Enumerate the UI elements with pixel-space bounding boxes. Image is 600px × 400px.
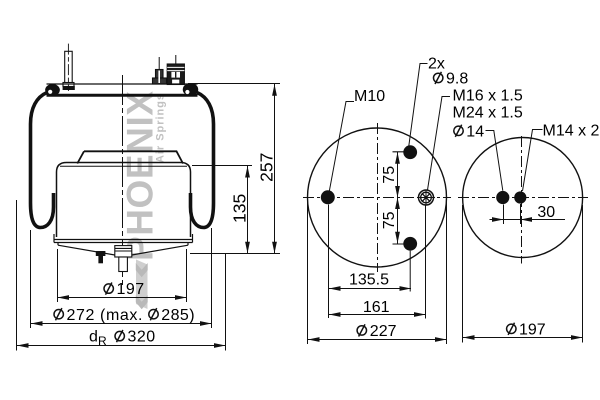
center crosshair xyxy=(303,197,451,199)
svg-text:M24 x 1.5: M24 x 1.5 xyxy=(453,104,523,121)
top plate xyxy=(47,84,198,95)
svg-text:9.8: 9.8 xyxy=(446,71,468,88)
svg-text:135.5: 135.5 xyxy=(349,272,389,289)
dim dR dia320 xyxy=(17,200,226,351)
arrows 135.5 xyxy=(329,286,341,291)
svg-text:R: R xyxy=(98,334,107,348)
svg-text:75: 75 xyxy=(381,166,398,184)
arrow 257 top xyxy=(272,84,277,96)
leader M10 xyxy=(329,102,354,192)
svg-text:227: 227 xyxy=(370,323,397,340)
arrow 135 top xyxy=(245,166,250,178)
extension top for 257 xyxy=(188,83,280,85)
stud hole top xyxy=(403,145,417,159)
dim 30 xyxy=(490,204,566,224)
svg-text:2x: 2x xyxy=(428,56,445,73)
circle plate dia227 xyxy=(308,128,447,267)
piston body xyxy=(57,163,191,238)
dim dia227 xyxy=(308,339,447,341)
value label dia197 right xyxy=(507,323,516,335)
dim 257 xyxy=(274,84,276,253)
dim 161 xyxy=(329,314,426,316)
svg-text:M16 x 1.5: M16 x 1.5 xyxy=(453,88,523,105)
centerline left view xyxy=(122,75,124,285)
arrows dia197 left xyxy=(58,295,70,300)
hole M10 xyxy=(321,190,335,204)
dim 75/75 xyxy=(393,152,411,244)
arrows dia197 right xyxy=(463,335,475,340)
arrows 161 xyxy=(329,312,341,317)
arrows dia272 xyxy=(31,321,43,326)
svg-text:320: 320 xyxy=(128,329,156,346)
piston dish bottom xyxy=(58,245,188,255)
bead left xyxy=(46,85,60,96)
leader dia14 xyxy=(486,131,503,191)
bottom boss xyxy=(115,246,132,257)
svg-text:30: 30 xyxy=(537,204,555,221)
small stud / air fitting M16 xyxy=(153,57,167,84)
stud M10 top left xyxy=(63,44,75,91)
arrows dia227 xyxy=(308,337,320,342)
svg-text:d: d xyxy=(89,329,98,346)
arrow 135 bottom xyxy=(245,242,250,254)
combination fitting M24 xyxy=(167,55,184,85)
bellows outer contour left xyxy=(31,93,54,228)
svg-text:75: 75 xyxy=(381,211,398,229)
leader 2x dia9.8 xyxy=(409,64,428,147)
svg-text:M14 x 2: M14 x 2 xyxy=(543,123,600,140)
svg-text:161: 161 xyxy=(363,299,390,316)
label dia14 xyxy=(454,125,463,137)
svg-text:197: 197 xyxy=(519,321,546,338)
bottom bolt xyxy=(96,251,106,263)
dim 135.5 xyxy=(329,288,412,290)
arrows 75 upper xyxy=(395,152,400,164)
value label dia272 max dia285 xyxy=(54,308,63,320)
dim dia272 xyxy=(31,228,212,328)
arrows 75 lower xyxy=(395,198,400,210)
value label dia227 xyxy=(357,324,366,336)
svg-text:M10: M10 xyxy=(354,88,385,105)
svg-text:257: 257 xyxy=(257,153,277,182)
value label dia197 xyxy=(104,283,113,295)
dim 135 xyxy=(247,166,249,254)
svg-text:14: 14 xyxy=(466,123,484,140)
dim dia197 left xyxy=(58,249,187,302)
piston bottom flange xyxy=(54,234,193,245)
svg-text:272 (max.: 272 (max. xyxy=(67,307,144,324)
bead right xyxy=(183,84,197,96)
hole M14 xyxy=(514,191,526,203)
bottom reference line xyxy=(190,253,280,255)
bellows outer contour right xyxy=(191,93,214,228)
piston top cap xyxy=(77,151,183,163)
extension for 135 xyxy=(192,165,252,167)
svg-text:197: 197 xyxy=(117,281,145,298)
dim dia197 right xyxy=(463,205,583,343)
air fitting symbol xyxy=(417,190,435,205)
leader M16 M24 xyxy=(428,97,451,191)
svg-text:285): 285) xyxy=(161,307,195,324)
extensions below middle circle xyxy=(308,202,447,344)
hole dia14 xyxy=(496,191,509,204)
watermark PHOENIX logo xyxy=(120,91,167,310)
svg-text:Air Springs: Air Springs xyxy=(155,94,167,163)
svg-text:135: 135 xyxy=(230,194,250,223)
arrow 257 bottom xyxy=(272,242,277,254)
stud hole bottom xyxy=(403,237,417,251)
leader M14x2 xyxy=(523,130,543,192)
arrows 30 xyxy=(492,217,504,222)
bottom stud xyxy=(119,257,128,272)
arrows dia320 xyxy=(17,343,29,348)
